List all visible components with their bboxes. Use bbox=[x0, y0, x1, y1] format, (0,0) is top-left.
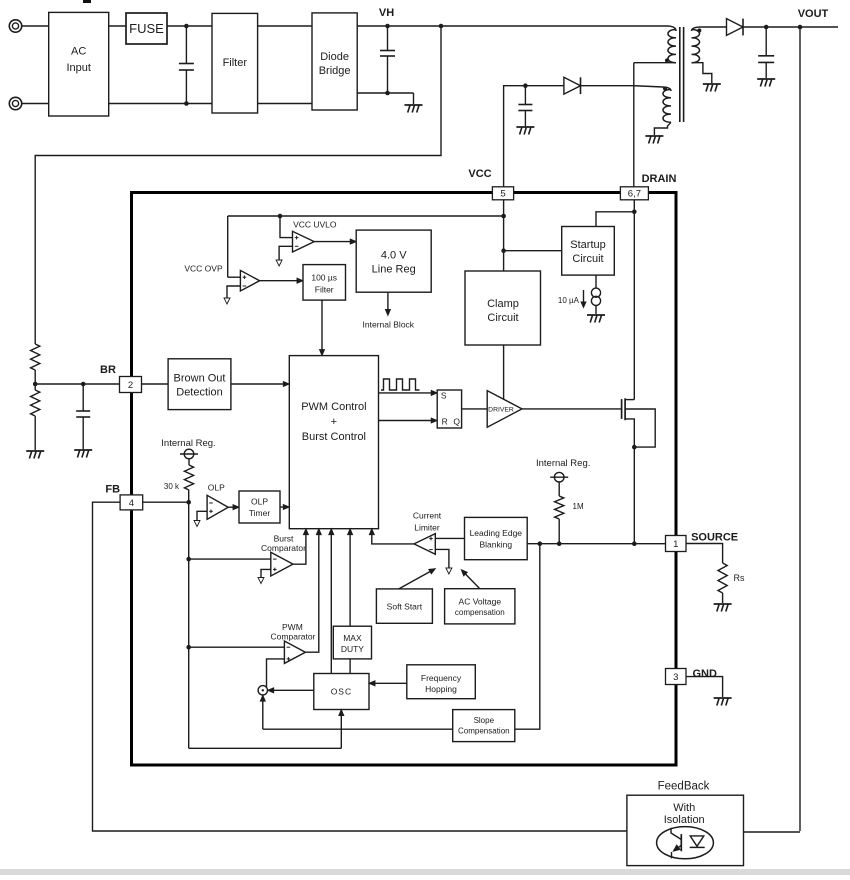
svg-text:3: 3 bbox=[673, 672, 678, 683]
svg-text:Comparator: Comparator bbox=[271, 632, 316, 642]
svg-text:Diode: Diode bbox=[320, 51, 349, 63]
svg-text:Timer: Timer bbox=[249, 508, 271, 518]
svg-text:VCC: VCC bbox=[468, 168, 491, 180]
svg-text:Limiter: Limiter bbox=[414, 523, 440, 533]
svg-text:MAX: MAX bbox=[343, 633, 362, 643]
svg-text:Hopping: Hopping bbox=[425, 684, 457, 694]
svg-text:DUTY: DUTY bbox=[341, 644, 364, 654]
svg-text:FB: FB bbox=[105, 484, 120, 496]
svg-text:R: R bbox=[442, 417, 448, 427]
svg-text:VH: VH bbox=[379, 7, 394, 19]
svg-text:5: 5 bbox=[500, 189, 505, 200]
svg-text:OSC: OSC bbox=[331, 687, 352, 697]
svg-text:Comparator: Comparator bbox=[261, 543, 306, 553]
svg-text:OLP: OLP bbox=[251, 497, 268, 507]
svg-text:Frequency: Frequency bbox=[421, 673, 462, 683]
svg-text:+: + bbox=[331, 416, 337, 428]
svg-text:DRAIN: DRAIN bbox=[642, 173, 677, 185]
svg-text:With: With bbox=[673, 802, 695, 814]
svg-text:Filter: Filter bbox=[315, 285, 334, 295]
svg-text:GND: GND bbox=[692, 668, 717, 680]
svg-text:FeedBack: FeedBack bbox=[658, 781, 710, 793]
svg-text:Compensation: Compensation bbox=[458, 727, 510, 736]
svg-text:AC: AC bbox=[71, 46, 86, 58]
svg-text:4: 4 bbox=[129, 498, 134, 509]
svg-text:Soft Start: Soft Start bbox=[387, 602, 423, 612]
svg-text:Brown Out: Brown Out bbox=[174, 373, 226, 385]
svg-text:FUSE: FUSE bbox=[129, 21, 164, 36]
svg-text:Internal Block: Internal Block bbox=[363, 320, 415, 330]
svg-text:100 µs: 100 µs bbox=[311, 273, 337, 283]
svg-text:4.0 V: 4.0 V bbox=[381, 250, 407, 262]
svg-text:Circuit: Circuit bbox=[572, 253, 603, 265]
svg-text:Burst: Burst bbox=[274, 534, 294, 544]
svg-text:VCC OVP: VCC OVP bbox=[184, 264, 223, 274]
svg-text:Rs: Rs bbox=[734, 573, 745, 583]
svg-text:SOURCE: SOURCE bbox=[691, 532, 738, 544]
svg-text:1: 1 bbox=[673, 539, 678, 550]
svg-text:Blanking: Blanking bbox=[479, 540, 512, 550]
svg-text:10 µA: 10 µA bbox=[558, 296, 580, 305]
svg-text:Leading Edge: Leading Edge bbox=[470, 528, 523, 538]
svg-text:Filter: Filter bbox=[223, 57, 248, 69]
svg-text:Isolation: Isolation bbox=[664, 814, 705, 826]
svg-text:compensation: compensation bbox=[455, 608, 505, 617]
svg-text:Detection: Detection bbox=[176, 387, 222, 399]
svg-text:Circuit: Circuit bbox=[487, 312, 518, 324]
svg-text:Input: Input bbox=[66, 62, 90, 74]
svg-text:PWM: PWM bbox=[282, 622, 303, 632]
svg-text:Current: Current bbox=[413, 511, 442, 521]
svg-text:Q: Q bbox=[453, 417, 460, 427]
svg-text:Line Reg: Line Reg bbox=[372, 264, 416, 276]
svg-text:6,7: 6,7 bbox=[628, 189, 641, 200]
svg-text:Clamp: Clamp bbox=[487, 298, 519, 310]
svg-text:Internal Reg.: Internal Reg. bbox=[536, 458, 590, 469]
svg-text:2: 2 bbox=[128, 380, 133, 391]
svg-text:1M: 1M bbox=[573, 502, 584, 511]
svg-text:Burst Control: Burst Control bbox=[302, 431, 366, 443]
svg-text:Bridge: Bridge bbox=[319, 65, 351, 77]
svg-text:PWM Control: PWM Control bbox=[301, 401, 366, 413]
svg-text:DRIVER: DRIVER bbox=[488, 407, 514, 414]
svg-text:BR: BR bbox=[100, 364, 116, 376]
svg-text:OLP: OLP bbox=[208, 483, 225, 493]
svg-text:30 k: 30 k bbox=[164, 482, 180, 491]
svg-text:Slope: Slope bbox=[474, 716, 495, 725]
svg-text:S: S bbox=[441, 391, 447, 401]
svg-text:VCC UVLO: VCC UVLO bbox=[293, 220, 337, 230]
svg-text:Internal Reg.: Internal Reg. bbox=[161, 438, 215, 449]
svg-text:Startup: Startup bbox=[570, 239, 605, 251]
svg-text:VOUT: VOUT bbox=[798, 8, 829, 20]
svg-text:AC Voltage: AC Voltage bbox=[459, 597, 502, 607]
